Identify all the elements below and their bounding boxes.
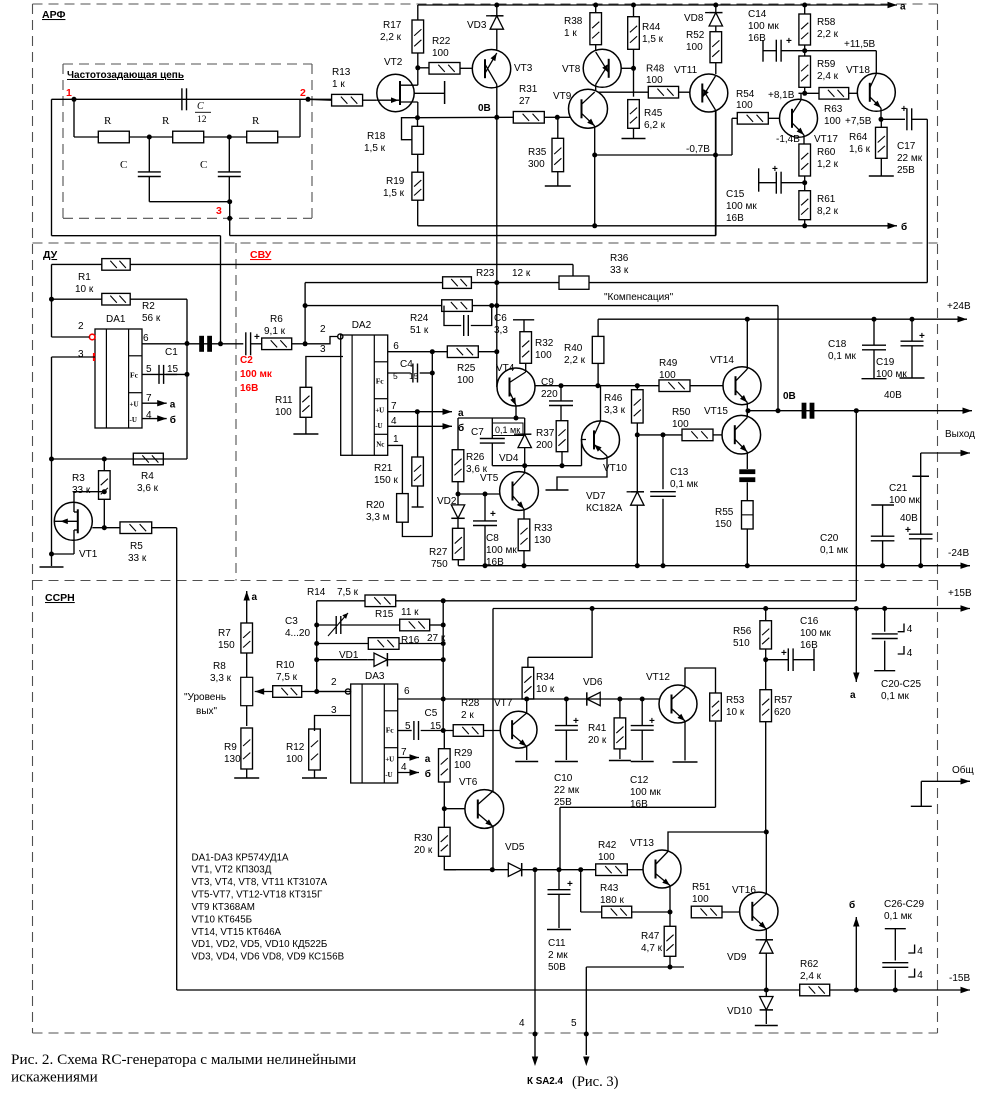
svg-text:Fc: Fc — [130, 371, 139, 380]
svg-text:16В: 16В — [630, 799, 648, 810]
svg-text:+: + — [919, 331, 925, 342]
svg-text:6: 6 — [393, 341, 399, 352]
svg-text:R52: R52 — [686, 30, 705, 41]
svg-text:VT2: VT2 — [384, 57, 403, 68]
svg-text:100: 100 — [598, 852, 615, 863]
svg-text:100: 100 — [432, 48, 449, 59]
svg-text:R54: R54 — [736, 89, 755, 100]
svg-text:С13: С13 — [670, 467, 689, 478]
svg-text:С6: С6 — [494, 313, 507, 324]
svg-text:3,3 к: 3,3 к — [210, 673, 232, 684]
svg-text:VD6: VD6 — [583, 677, 603, 688]
svg-text:R11: R11 — [275, 395, 293, 406]
svg-text:R33: R33 — [534, 523, 553, 534]
svg-text:1,5 к: 1,5 к — [383, 188, 405, 199]
svg-text:0В: 0В — [783, 391, 796, 402]
svg-text:R64: R64 — [849, 132, 868, 143]
svg-text:VT12: VT12 — [646, 672, 670, 683]
svg-text:"Компенсация": "Компенсация" — [604, 292, 674, 303]
svg-text:300: 300 — [528, 159, 545, 170]
svg-text:R58: R58 — [817, 17, 836, 28]
svg-text:4,7 к: 4,7 к — [641, 943, 663, 954]
svg-text:7: 7 — [401, 747, 407, 758]
svg-text:DA3: DA3 — [365, 671, 385, 682]
svg-text:VD4: VD4 — [499, 453, 519, 464]
svg-text:33 к: 33 к — [610, 265, 629, 276]
svg-text:100 мк: 100 мк — [240, 369, 273, 380]
svg-text:1: 1 — [393, 434, 399, 445]
svg-text:С8: С8 — [486, 533, 499, 544]
svg-text:C: C — [200, 159, 207, 171]
svg-text:7: 7 — [391, 401, 397, 412]
svg-text:VT17: VT17 — [814, 134, 838, 145]
svg-text:+: + — [901, 104, 907, 115]
svg-text:-1,4В: -1,4В — [776, 134, 800, 145]
svg-text:0,1 мк: 0,1 мк — [495, 425, 520, 435]
svg-text:100: 100 — [824, 116, 841, 127]
svg-text:R60: R60 — [817, 147, 836, 158]
svg-text:750: 750 — [431, 559, 448, 570]
svg-text:9,1 к: 9,1 к — [264, 326, 286, 337]
svg-text:27: 27 — [519, 96, 531, 107]
svg-text:R8: R8 — [213, 661, 226, 672]
svg-text:VD7: VD7 — [586, 491, 606, 502]
svg-text:+: + — [786, 36, 792, 47]
svg-text:5: 5 — [146, 364, 152, 375]
svg-text:VD10: VD10 — [727, 1006, 752, 1017]
svg-text:2,2 к: 2,2 к — [817, 29, 839, 40]
svg-text:22 мк: 22 мк — [554, 785, 580, 796]
svg-text:3: 3 — [78, 349, 84, 360]
svg-text:+U: +U — [375, 407, 384, 415]
svg-text:100: 100 — [275, 407, 292, 418]
svg-text:б: б — [170, 414, 176, 426]
svg-text:0,1 мк: 0,1 мк — [820, 545, 849, 556]
svg-text:Общ: Общ — [952, 764, 974, 776]
svg-text:C: C — [120, 159, 127, 171]
svg-text:R55: R55 — [715, 507, 734, 518]
svg-text:-24В: -24В — [948, 548, 969, 559]
svg-text:40В: 40В — [884, 390, 902, 401]
svg-text:150 к: 150 к — [374, 475, 398, 486]
svg-text:R62: R62 — [800, 959, 819, 970]
svg-text:R53: R53 — [726, 695, 745, 706]
svg-text:VD1, VD2, VD5, VD10 КД522Б: VD1, VD2, VD5, VD10 КД522Б — [192, 939, 328, 950]
svg-text:"Уровень: "Уровень — [184, 692, 226, 703]
svg-text:4: 4 — [401, 762, 407, 773]
svg-text:25В: 25В — [554, 797, 572, 808]
svg-text:16В: 16В — [800, 640, 818, 651]
svg-text:КС182А: КС182А — [586, 503, 623, 514]
svg-text:Nc: Nc — [376, 440, 384, 448]
svg-text:100: 100 — [686, 42, 703, 53]
svg-text:620: 620 — [774, 707, 791, 718]
svg-text:7,5 к: 7,5 к — [276, 672, 298, 683]
svg-text:16В: 16В — [726, 213, 744, 224]
svg-text:а: а — [900, 2, 906, 13]
svg-text:СВУ: СВУ — [250, 249, 272, 261]
svg-text:-15В: -15В — [949, 973, 970, 984]
svg-text:R42: R42 — [598, 840, 617, 851]
svg-text:1,2 к: 1,2 к — [817, 159, 839, 170]
svg-text:R19: R19 — [386, 176, 405, 187]
svg-text:VT14: VT14 — [710, 355, 734, 366]
svg-text:R35: R35 — [528, 147, 547, 158]
svg-text:R5: R5 — [130, 541, 143, 552]
svg-text:-U: -U — [130, 416, 137, 424]
svg-text:100: 100 — [692, 894, 709, 905]
svg-text:С7: С7 — [471, 427, 484, 438]
svg-text:VT16: VT16 — [732, 885, 756, 896]
svg-text:+: + — [573, 716, 579, 727]
svg-text:6,2 к: 6,2 к — [644, 120, 666, 131]
svg-text:R37: R37 — [536, 428, 555, 439]
svg-text:51 к: 51 к — [410, 325, 429, 336]
svg-text:С11: С11 — [548, 938, 566, 949]
svg-text:Fc: Fc — [376, 377, 385, 386]
svg-text:R4: R4 — [141, 471, 154, 482]
svg-text:3,3 к: 3,3 к — [604, 405, 626, 416]
svg-text:3,3: 3,3 — [494, 325, 508, 336]
svg-text:VT5-VT7, VT12-VT18 КТ315Г: VT5-VT7, VT12-VT18 КТ315Г — [192, 890, 323, 901]
svg-text:С14: С14 — [748, 9, 767, 20]
svg-text:R: R — [162, 115, 170, 127]
svg-text:VD5: VD5 — [505, 842, 525, 853]
svg-text:VD3, VD4, VD6 VD8, VD9 КС156: VD3, VD4, VD6 VD8, VD9 КС156В — [192, 952, 345, 963]
svg-text:+U: +U — [385, 756, 394, 764]
svg-text:C: C — [197, 101, 204, 112]
svg-text:150: 150 — [218, 640, 235, 651]
svg-text:VT10 КТ645Б: VT10 КТ645Б — [192, 914, 253, 925]
svg-text:150: 150 — [715, 519, 732, 530]
svg-text:1,6 к: 1,6 к — [849, 144, 871, 155]
svg-text:3: 3 — [320, 344, 326, 355]
svg-text:100: 100 — [646, 75, 663, 86]
svg-text:+: + — [905, 525, 911, 536]
svg-text:10 к: 10 к — [726, 707, 745, 718]
svg-text:R24: R24 — [410, 313, 429, 324]
svg-text:C26-C29: C26-C29 — [884, 899, 924, 910]
svg-text:20 к: 20 к — [588, 735, 607, 746]
svg-text:0,1 мк: 0,1 мк — [670, 479, 699, 490]
svg-text:(Рис. 3): (Рис. 3) — [572, 1074, 619, 1090]
svg-text:+: + — [254, 332, 260, 343]
svg-text:+24В: +24В — [947, 301, 971, 312]
svg-text:VT3, VT4, VT8, VT11 КТ3107А: VT3, VT4, VT8, VT11 КТ3107А — [192, 877, 328, 888]
svg-text:С18: С18 — [828, 339, 847, 350]
svg-text:+: + — [567, 879, 573, 890]
svg-text:130: 130 — [224, 754, 241, 765]
svg-text:R20: R20 — [366, 500, 385, 511]
svg-text:1: 1 — [66, 87, 72, 99]
svg-text:1,5 к: 1,5 к — [642, 34, 664, 45]
svg-text:2: 2 — [78, 321, 84, 332]
svg-text:-U: -U — [375, 422, 382, 430]
svg-text:1 к: 1 к — [564, 28, 577, 39]
svg-text:510: 510 — [733, 638, 750, 649]
svg-text:50В: 50В — [548, 962, 566, 973]
svg-text:15: 15 — [167, 364, 179, 375]
svg-text:DA1: DA1 — [106, 314, 126, 325]
svg-text:R18: R18 — [367, 131, 386, 142]
svg-text:VT5: VT5 — [480, 473, 499, 484]
svg-text:R50: R50 — [672, 407, 691, 418]
svg-text:VT6: VT6 — [459, 777, 478, 788]
svg-text:4: 4 — [907, 624, 913, 635]
svg-text:R26: R26 — [466, 452, 485, 463]
svg-text:VT8: VT8 — [562, 64, 581, 75]
svg-text:Выход: Выход — [945, 429, 975, 440]
svg-text:-U: -U — [385, 771, 392, 779]
svg-text:С12: С12 — [630, 775, 649, 786]
svg-text:100: 100 — [457, 375, 474, 386]
svg-text:+: + — [649, 716, 655, 727]
svg-text:R61: R61 — [817, 194, 836, 205]
svg-text:100: 100 — [286, 754, 303, 765]
svg-text:4: 4 — [391, 416, 397, 427]
svg-text:а: а — [170, 400, 176, 411]
svg-text:4: 4 — [907, 648, 913, 659]
svg-text:130: 130 — [534, 535, 551, 546]
svg-text:R: R — [252, 115, 260, 127]
svg-text:4: 4 — [917, 946, 923, 957]
svg-text:0В: 0В — [478, 103, 491, 114]
svg-text:С3: С3 — [285, 616, 298, 627]
svg-text:40В: 40В — [900, 513, 918, 524]
svg-text:а: а — [252, 592, 258, 603]
svg-text:4: 4 — [519, 1018, 525, 1029]
svg-text:R63: R63 — [824, 104, 843, 115]
svg-text:R49: R49 — [659, 358, 678, 369]
svg-text:-0,7В: -0,7В — [686, 144, 710, 155]
svg-text:VT9: VT9 — [553, 91, 572, 102]
svg-text:R46: R46 — [604, 393, 623, 404]
svg-text:+: + — [781, 648, 787, 659]
svg-text:10 к: 10 к — [536, 684, 555, 695]
svg-text:Частотозадающая цепь: Частотозадающая цепь — [67, 70, 184, 81]
svg-text:R23: R23 — [476, 268, 495, 279]
svg-text:33 к: 33 к — [72, 485, 91, 496]
svg-text:VT1: VT1 — [79, 549, 98, 560]
svg-text:VT3: VT3 — [514, 63, 533, 74]
svg-text:R44: R44 — [642, 22, 661, 33]
svg-text:+: + — [490, 509, 496, 520]
svg-text:R7: R7 — [218, 628, 231, 639]
svg-text:С2: С2 — [240, 355, 253, 366]
svg-text:VT1, VT2 КП303Д: VT1, VT2 КП303Д — [192, 865, 272, 876]
svg-text:R38: R38 — [564, 16, 583, 27]
svg-text:2 к: 2 к — [461, 710, 474, 721]
svg-text:C4: C4 — [400, 359, 413, 370]
svg-text:7,5 к: 7,5 к — [337, 587, 359, 598]
svg-text:R34: R34 — [536, 672, 555, 683]
svg-text:2,4 к: 2,4 к — [817, 71, 839, 82]
svg-text:R41: R41 — [588, 723, 607, 734]
svg-text:R43: R43 — [600, 883, 619, 894]
svg-text:R21: R21 — [374, 463, 393, 474]
svg-text:R13: R13 — [332, 67, 351, 78]
svg-text:3,3 м: 3,3 м — [366, 512, 390, 523]
svg-text:искажениями: искажениями — [11, 1069, 98, 1086]
svg-text:R25: R25 — [457, 363, 476, 374]
svg-text:20 к: 20 к — [414, 845, 433, 856]
svg-text:+15В: +15В — [948, 588, 972, 599]
svg-text:4: 4 — [146, 410, 152, 421]
svg-text:С19: С19 — [876, 357, 895, 368]
svg-text:С15: С15 — [726, 189, 745, 200]
svg-text:С10: С10 — [554, 773, 573, 784]
svg-text:33 к: 33 к — [128, 553, 147, 564]
svg-text:б: б — [849, 899, 855, 911]
svg-text:100 мк: 100 мк — [486, 545, 517, 556]
svg-text:6: 6 — [404, 686, 410, 697]
svg-text:Рис. 2. Схема RC-генератора с: Рис. 2. Схема RC-генератора с малыми нел… — [11, 1051, 356, 1068]
svg-text:100: 100 — [454, 760, 471, 771]
svg-text:+U: +U — [130, 401, 139, 409]
svg-text:+8,1В: +8,1В — [768, 90, 795, 101]
svg-text:R17: R17 — [383, 20, 402, 31]
svg-text:100: 100 — [736, 100, 753, 111]
svg-text:С1: С1 — [165, 347, 178, 358]
svg-text:7: 7 — [146, 393, 152, 404]
svg-text:2: 2 — [300, 87, 306, 99]
svg-text:б: б — [901, 221, 907, 233]
svg-text:R31: R31 — [519, 84, 538, 95]
svg-text:6: 6 — [143, 333, 149, 344]
svg-text:R10: R10 — [276, 660, 295, 671]
svg-text:а: а — [850, 690, 856, 701]
svg-text:R: R — [104, 115, 112, 127]
svg-text:К SA2.4: К SA2.4 — [527, 1076, 563, 1087]
svg-text:VD8: VD8 — [684, 13, 704, 24]
svg-text:DA1-DA3 КР574УД1А: DA1-DA3 КР574УД1А — [192, 852, 290, 863]
svg-text:R36: R36 — [610, 253, 629, 264]
svg-text:220: 220 — [541, 389, 558, 400]
svg-text:VT9 КТ368АМ: VT9 КТ368АМ — [192, 902, 255, 913]
svg-text:АРФ: АРФ — [42, 9, 65, 21]
svg-text:2: 2 — [320, 324, 326, 335]
svg-text:Fc: Fc — [386, 726, 395, 735]
svg-text:0,1 мк: 0,1 мк — [884, 911, 913, 922]
svg-text:+11,5В: +11,5В — [844, 39, 876, 50]
svg-text:2,2 к: 2,2 к — [380, 32, 402, 43]
svg-text:16В: 16В — [240, 383, 258, 394]
svg-text:12 к: 12 к — [512, 268, 531, 279]
svg-text:R27: R27 — [429, 547, 448, 558]
svg-text:22 мк: 22 мк — [897, 153, 923, 164]
svg-text:VT15: VT15 — [704, 406, 728, 417]
svg-text:R16: R16 — [401, 635, 420, 646]
svg-text:8,2 к: 8,2 к — [817, 206, 839, 217]
svg-text:R29: R29 — [454, 748, 473, 759]
svg-text:VT14, VT15 КТ646А: VT14, VT15 КТ646А — [192, 927, 282, 938]
svg-text:R45: R45 — [644, 108, 663, 119]
svg-text:R14: R14 — [307, 587, 326, 598]
svg-text:вых": вых" — [196, 706, 218, 717]
svg-text:100 мк: 100 мк — [800, 628, 831, 639]
svg-text:а: а — [425, 754, 431, 765]
svg-text:С20: С20 — [820, 533, 839, 544]
svg-text:б: б — [458, 422, 464, 434]
svg-text:R12: R12 — [286, 742, 305, 753]
svg-text:2,2 к: 2,2 к — [564, 355, 586, 366]
svg-text:0,1 мк: 0,1 мк — [828, 351, 857, 362]
svg-text:VD3: VD3 — [467, 20, 487, 31]
svg-text:2: 2 — [331, 677, 337, 688]
svg-text:R3: R3 — [72, 473, 85, 484]
svg-text:100 мк: 100 мк — [748, 21, 779, 32]
svg-text:C20-C25: C20-C25 — [881, 679, 921, 690]
svg-text:R32: R32 — [535, 338, 554, 349]
svg-text:DA2: DA2 — [352, 320, 372, 331]
svg-text:4...20: 4...20 — [285, 628, 310, 639]
svg-text:С16: С16 — [800, 616, 819, 627]
svg-text:10 к: 10 к — [75, 284, 94, 295]
svg-text:0,1 мк: 0,1 мк — [881, 691, 910, 702]
svg-text:180 к: 180 к — [600, 895, 624, 906]
svg-text:3: 3 — [216, 205, 222, 217]
svg-text:VT18: VT18 — [846, 65, 870, 76]
svg-text:R47: R47 — [641, 931, 660, 942]
svg-text:100: 100 — [535, 350, 552, 361]
svg-text:R56: R56 — [733, 626, 752, 637]
svg-text:VD9: VD9 — [727, 952, 747, 963]
svg-text:ДУ: ДУ — [43, 249, 58, 261]
svg-text:R28: R28 — [461, 698, 480, 709]
svg-text:4: 4 — [917, 970, 923, 981]
svg-text:56 к: 56 к — [142, 313, 161, 324]
svg-text:ССРН: ССРН — [45, 592, 75, 604]
svg-text:+: + — [772, 164, 778, 175]
svg-text:2 мк: 2 мк — [548, 950, 568, 961]
svg-text:R1: R1 — [78, 272, 91, 283]
svg-text:R15: R15 — [375, 609, 394, 620]
svg-text:R57: R57 — [774, 695, 793, 706]
svg-text:3: 3 — [331, 705, 337, 716]
svg-text:R9: R9 — [224, 742, 237, 753]
svg-text:100 мк: 100 мк — [726, 201, 757, 212]
svg-text:С21: С21 — [889, 483, 908, 494]
svg-text:R22: R22 — [432, 36, 451, 47]
svg-text:R40: R40 — [564, 343, 583, 354]
svg-text:R6: R6 — [270, 314, 283, 325]
svg-text:5: 5 — [571, 1018, 577, 1029]
svg-text:R48: R48 — [646, 64, 665, 75]
svg-text:25В: 25В — [897, 165, 915, 176]
svg-text:12: 12 — [197, 115, 207, 125]
svg-text:100: 100 — [672, 419, 689, 430]
svg-text:R2: R2 — [142, 301, 155, 312]
svg-text:200: 200 — [536, 440, 553, 451]
svg-text:11 к: 11 к — [401, 607, 419, 618]
svg-text:С5: С5 — [425, 708, 438, 719]
svg-text:VT11: VT11 — [674, 65, 698, 76]
svg-text:1,5 к: 1,5 к — [364, 143, 386, 154]
svg-text:1 к: 1 к — [332, 79, 345, 90]
svg-text:R30: R30 — [414, 833, 433, 844]
svg-text:R59: R59 — [817, 59, 836, 70]
svg-text:+7,5В: +7,5В — [845, 116, 872, 127]
svg-text:2,4 к: 2,4 к — [800, 971, 822, 982]
svg-text:VT7: VT7 — [494, 698, 513, 709]
svg-text:С17: С17 — [897, 141, 916, 152]
svg-text:б: б — [425, 768, 431, 780]
svg-text:R51: R51 — [692, 882, 711, 893]
svg-text:3,6 к: 3,6 к — [137, 483, 159, 494]
svg-text:100 мк: 100 мк — [630, 787, 661, 798]
svg-text:VT13: VT13 — [630, 838, 654, 849]
